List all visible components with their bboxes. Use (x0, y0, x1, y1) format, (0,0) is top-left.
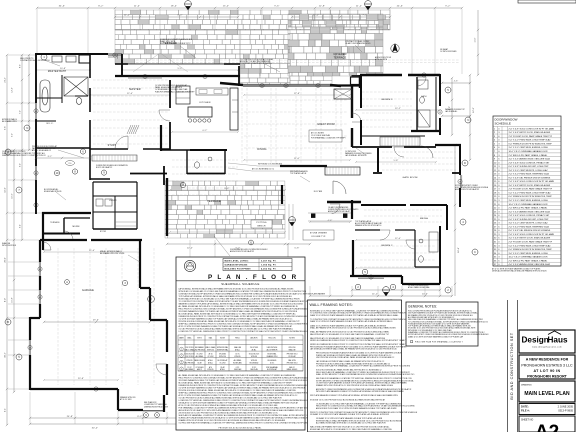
svg-text:FRAMED WITH 2X6 STUDS AT 16: FRAMED WITH 2X6 STUDS AT 16 (355, 224, 381, 227)
svg-text:SHEARWALL SCHEDULE: SHEARWALL SCHEDULE (221, 282, 259, 286)
kitchen (176, 86, 238, 130)
svg-text:12'-0": 12'-0" (395, 238, 401, 240)
entry porch edge lines (289, 204, 293, 240)
svg-text:GARAGE: GARAGE (82, 289, 94, 292)
svg-text:SHTG: SHTG (197, 338, 202, 340)
svg-text:SOLID BLOCKI: SOLID BLOCKI (249, 354, 260, 356)
svg-text:BEDRM 2: BEDRM 2 (381, 245, 393, 247)
svg-text:TERRACE: TERRACE (334, 57, 347, 60)
svg-text:OC FIELD SEE PLAN FOR SHEARWAL: OC FIELD SEE PLAN FOR SHEARWALL LOCATION… (316, 365, 411, 368)
svg-text:FRAMED WITH 2X6 STUDS AT 16 OC: FRAMED WITH 2X6 STUDS AT 16 OC UNO PROVI… (316, 384, 394, 387)
right dimension lines (454, 10, 479, 296)
svg-text:9'0: 9'0 (69, 163, 72, 165)
terrace stone hatch top band (115, 10, 390, 30)
mudroom walls (42, 169, 91, 285)
left grid bubbles (5, 54, 47, 360)
scattered notes (2, 38, 489, 412)
svg-text:1: 1 (181, 349, 182, 351)
svg-text:W.I.C.: W.I.C. (46, 123, 53, 125)
svg-text:GENERAL NOTES:: GENERAL NOTES: (408, 305, 437, 309)
svg-text:12 OC FIELD SEE PLAN: 12 OC FIELD SEE PLAN (311, 134, 331, 137)
svg-text:8'-0" X 6'-8" DBL FRENCH DRS W: 8'-0" X 6'-8" DBL FRENCH DRS W/ SCREENS (509, 177, 551, 179)
svg-text:WITH 8D AT 6 OC EDGES AND: WITH 8D AT 6 OC EDGES AND (258, 163, 283, 166)
svg-text:A2: A2 (535, 422, 559, 432)
svg-text:WITH 2X6 STUDS: WITH 2X6 STUDS (2, 245, 17, 247)
svg-text:15'-0": 15'-0" (223, 6, 230, 8)
svg-text:BENCH: BENCH (257, 225, 265, 227)
svg-text:5'-0": 5'-0" (12, 133, 14, 137)
foyer (280, 166, 361, 204)
svg-text:3: 3 (181, 362, 182, 364)
svg-text:DIMENSIONS IN FIELD PRIOR TO C: DIMENSIONS IN FIELD PRIOR TO CONSTRUCTIO… (2, 155, 46, 157)
svg-text:3'-0" X 6'-8" ENTRY DOOR, STAI: 3'-0" X 6'-8" ENTRY DOOR, STAIN GR ALDER (509, 131, 551, 134)
entry porch columns (308, 213, 352, 221)
svg-text:DIA AT 32 OC WITH 3X3 PLATE WA: DIA AT 32 OC WITH 3X3 PLATE WASHERS DOUB… (310, 314, 398, 317)
top dimension lines (36, 6, 463, 75)
svg-text:KITCHEN: KITCHEN (199, 102, 210, 104)
svg-text:12'-0": 12'-0" (473, 107, 475, 113)
svg-text:WITH 8D: WITH 8D (251, 356, 258, 358)
svg-text:6'-0" X 6'-8" SLIDING DR UNIT,: 6'-0" X 6'-8" SLIDING DR UNIT, LOW-E TMP (509, 219, 549, 221)
svg-text:MDRM: MDRM (72, 226, 79, 228)
svg-text:8'-0" X 6'-8" DBL FRENCH DRS W: 8'-0" X 6'-8" DBL FRENCH DRS W/ SCREENS (509, 230, 551, 232)
svg-text:VERIFY ALL DIMENSIONS IN FIELD: VERIFY ALL DIMENSIONS IN FIELD PRIOR TO … (310, 339, 413, 342)
study area markers (54, 149, 106, 176)
svg-text:12'-8": 12'-8" (319, 6, 326, 8)
svg-text:DRAWING:: DRAWING: (521, 384, 532, 387)
svg-text:6'-4": 6'-4" (5, 408, 7, 412)
svg-text:13'-2": 13'-2" (395, 108, 401, 110)
svg-text:11'-2": 11'-2" (356, 6, 362, 8)
svg-text:WITH 2X6: WITH 2X6 (289, 347, 296, 349)
svg-text:5'-0" X 4'-0" FIXED WDW, LOW-E: 5'-0" X 4'-0" FIXED WDW, LOW-E TEMP GLAZ (509, 244, 552, 247)
designhaus logo box (519, 330, 575, 353)
svg-text:OC EDGES: OC EDGES (196, 367, 204, 369)
svg-text:AT 6 OC EDGES AND 12 OC: AT 6 OC EDGES AND 12 OC (252, 168, 275, 171)
svg-text:AT 16 OC UNO: AT 16 OC UNO (120, 398, 132, 401)
svg-text:LAP 48 MIN ALL EXTERIOR WALLS: LAP 48 MIN ALL EXTERIOR WALLS SHALL BE F… (310, 348, 397, 351)
svg-text:OC WITH 3X3 PLATE: OC WITH 3X3 PLATE (440, 50, 457, 53)
svg-text:WITH 8D: WITH 8D (207, 369, 214, 371)
svg-text:AT ALL PANEL EDGES NAIL: AT ALL PANEL EDGES NAIL (408, 286, 430, 289)
svg-text:WITH 2X6: WITH 2X6 (207, 349, 214, 351)
svg-text:D: D (464, 162, 466, 165)
svg-text:MASTER BATH: MASTER BATH (48, 70, 67, 73)
svg-text:3X3 PLATE WASHERS DOUBLE TOP P: 3X3 PLATE WASHERS DOUBLE TOP PLATES LAP … (310, 394, 398, 397)
bedroom2 (350, 226, 440, 284)
master bedroom (90, 76, 240, 150)
svg-text:STONE VENEER: STONE VENEER (310, 233, 328, 235)
svg-text:UNO PROVIDE: UNO PROVIDE (184, 363, 195, 365)
svg-text:16'-0" X 8'-0" OVERHEAD GARAGE: 16'-0" X 8'-0" OVERHEAD GARAGE DOOR (509, 203, 549, 206)
svg-text:12'-4": 12'-4" (187, 248, 193, 250)
svg-text:4,262 SQ. FT.: 4,262 SQ. FT. (261, 268, 277, 271)
svg-text:GATE ROOM: GATE ROOM (402, 176, 417, 179)
svg-text:FILE #:: FILE #: (521, 409, 530, 413)
right terrace dims (441, 77, 471, 136)
svg-text:0313-P 9905: 0313-P 9905 (558, 409, 573, 413)
svg-text:6'-0" X 6'-8" SLIDING DR UNIT,: 6'-0" X 6'-8" SLIDING DR UNIT, LOW-E TMP (509, 166, 549, 168)
svg-text:11'-6": 11'-6" (294, 158, 300, 160)
svg-text:DOWNS PER SCHEDULE FOUNDATION: DOWNS PER SCHEDULE FOUNDATION (240, 62, 272, 65)
svg-text:9'-2": 9'-2" (445, 6, 450, 8)
svg-text:11'-0": 11'-0" (134, 6, 140, 8)
svg-text:TERRACE: TERRACE (50, 221, 60, 224)
svg-text:OF ANY DISCREPANCIES HOLD: OF ANY DISCREPANCIES HOLD (345, 42, 371, 45)
svg-text:4'-0" X 3'-6" AWNING WDW, OBSC: 4'-0" X 3'-6" AWNING WDW, OBSCURE GLAZ (509, 158, 551, 161)
svg-text:3'-6" X 5'-0" CSMT WDW PR, LOW: 3'-6" X 5'-0" CSMT WDW PR, LOW-E GLAZ (509, 222, 549, 225)
powder leaders (228, 163, 306, 171)
svg-text:2'-6" BIFOLD PR, PAINT GRADE,: 2'-6" BIFOLD PR, PAINT GRADE, 6 PANEL (509, 259, 549, 262)
se markers (355, 269, 396, 296)
svg-text:48 MIN ALL EXTERIOR WALLS SHAL: 48 MIN ALL EXTERIOR WALLS SHALL BE FRAME… (492, 270, 547, 273)
svg-text:FIELD SEE PLAN FOR SHEARWALL L: FIELD SEE PLAN FOR SHEARWALL LOCATIONS T (415, 341, 463, 344)
laundry cluster (93, 182, 137, 229)
top right mini box (518, 0, 576, 3)
svg-text:GARAGE/STORAGE:: GARAGE/STORAGE: (225, 264, 249, 267)
svg-text:OC UNO: OC UNO (197, 354, 204, 356)
svg-text:21'-4": 21'-4" (5, 77, 7, 83)
svg-text:3'-0" X 6'-8" ENTRY DOOR, STAI: 3'-0" X 6'-8" ENTRY DOOR, STAIN GR ALDER (509, 237, 551, 240)
north arrow kite (391, 44, 399, 53)
svg-text:16'-0" X 8'-0" OVERHEAD GARAGE: 16'-0" X 8'-0" OVERHEAD GARAGE DOOR (509, 256, 549, 259)
svg-text:2X6 STUDS: 2X6 STUDS (185, 347, 193, 349)
door/window schedule (492, 116, 561, 273)
master bath fixtures (40, 56, 88, 112)
window markers (28, 53, 462, 391)
svg-text:4'-0" X 3'-6" AWNING WDW, OBSC: 4'-0" X 3'-6" AWNING WDW, OBSCURE GLAZ (509, 263, 551, 266)
svg-text:2'-6" X 6'-8" SOLID CORE DOOR: 2'-6" X 6'-8" SOLID CORE DOOR W/ PT GR J… (509, 180, 555, 183)
svg-text:3'-0" X 5'-0" CSMT WDW, EGRESS: 3'-0" X 5'-0" CSMT WDW, EGRESS, LOW-E (509, 253, 549, 255)
svg-text:2'-0" X 3'-0" FIXED WDW, TEMPE: 2'-0" X 3'-0" FIXED WDW, TEMPERED GLAZ (509, 173, 550, 176)
svg-text:2'-8" X 6'-8" SOLID CORE DR, P: 2'-8" X 6'-8" SOLID CORE DR, PRIVACY SET (509, 214, 551, 217)
svg-text:STOR: STOR (100, 231, 107, 233)
svg-text:10'-6": 10'-6" (12, 193, 14, 198)
svg-text:TERRACE: TERRACE (207, 199, 221, 203)
svg-text:7'-0": 7'-0" (20, 110, 22, 114)
drawing box (519, 381, 575, 402)
svg-text:AT LOT 90 IN: AT LOT 90 IN (533, 369, 560, 373)
svg-text:18'-2": 18'-2" (5, 352, 7, 358)
svg-text:WITH 8D: WITH 8D (234, 356, 241, 358)
interior dim strings (35, 69, 441, 381)
svg-text:SCHEDULE: SCHEDULE (495, 122, 511, 126)
svg-text:6'-0" FRENCH DOOR PR W/ SIDELI: 6'-0" FRENCH DOOR PR W/ SIDELITES, TEMP (509, 196, 553, 198)
svg-text:BEDRM 3: BEDRM 3 (381, 99, 393, 101)
svg-text:PRONGHORN RESORT: PRONGHORN RESORT (527, 375, 568, 379)
svg-text:SOLID BLOCKI: SOLID BLOCKI (184, 354, 195, 356)
svg-text:AT 6 OC EDGES AND 12: AT 6 OC EDGES AND 12 (32, 149, 51, 152)
svg-text:6'-0" FRENCH DOOR PR W/ SIDELI: 6'-0" FRENCH DOOR PR W/ SIDELITES, TEMP (509, 249, 553, 251)
svg-text:9'-6": 9'-6" (274, 6, 279, 8)
svg-text:34'-6": 34'-6" (59, 6, 66, 8)
svg-text:BID AND CONSTRUCTION SET: BID AND CONSTRUCTION SET (510, 332, 514, 399)
svg-text:2X6 STUDS: 2X6 STUDS (185, 356, 193, 358)
svg-text:UNO PROVIDE: UNO PROVIDE (267, 347, 278, 349)
svg-text:2'-8" POCKET DOOR, PAINT GRADE: 2'-8" POCKET DOOR, PAINT GRADE TRIM TYP (509, 240, 553, 243)
gate room (352, 75, 462, 219)
svg-text:11'-0": 11'-0" (475, 37, 477, 42)
svg-text:ANCHOR BOLTS 5/8 DIA AT 32: ANCHOR BOLTS 5/8 DIA AT 32 (455, 188, 479, 191)
study area notes (32, 145, 84, 200)
terrace stone hatch middle (240, 30, 290, 84)
svg-text:BOLTS 5/8 DIA AT 32: BOLTS 5/8 DIA AT 32 (96, 166, 112, 169)
svg-text:POTTING: POTTING (256, 222, 267, 224)
svg-text:2'-8" POCKET DOOR, PAINT GRADE: 2'-8" POCKET DOOR, PAINT GRADE TRIM TYP (509, 135, 553, 138)
svg-text:2'-8" X 6'-8" SOLID CORE DR, P: 2'-8" X 6'-8" SOLID CORE DR, PRIVACY SET (509, 161, 551, 164)
svg-text:1,005 SQ. FT.: 1,005 SQ. FT. (261, 265, 277, 267)
svg-text:AT 32 OC WITH: AT 32 OC WITH (375, 58, 388, 61)
svg-text:DINING: DINING (257, 149, 266, 151)
svg-text:ANCHOR BOLTS 5/8 DIA AT 32 OC: ANCHOR BOLTS 5/8 DIA AT 32 OC WITH 3X3 P… (316, 407, 397, 410)
svg-text:A NEW RESIDENCE FOR: A NEW RESIDENCE FOR (526, 358, 569, 362)
svg-text:14'-6": 14'-6" (5, 187, 7, 193)
svg-text:3'-0" X 6'-8" ENTRY DOOR, STAI: 3'-0" X 6'-8" ENTRY DOOR, STAIN GR ALDER (509, 184, 551, 187)
potting note box (251, 220, 272, 228)
svg-text:LNDRY: LNDRY (109, 200, 117, 202)
svg-text:FOYER: FOYER (314, 191, 323, 193)
svg-text:Design: Design (522, 336, 549, 345)
svg-text:OC UNO: OC UNO (220, 363, 227, 365)
svg-text:AT 6 OC EDGES: AT 6 OC EDGES (311, 131, 325, 134)
svg-text:24'-6": 24'-6" (397, 6, 404, 8)
svg-text:10'-8": 10'-8" (60, 68, 66, 70)
svg-text:16'-0" X 8'-0" OVERHEAD GARAGE: 16'-0" X 8'-0" OVERHEAD GARAGE DOOR (509, 150, 549, 153)
svg-text:SHALL NOTIFY ARCHITECT OF ANY: SHALL NOTIFY ARCHITECT OF ANY DISCREPANC… (316, 373, 414, 376)
bedroom3 wing walls (352, 74, 440, 157)
svg-text:EDGE: EDGE (220, 338, 225, 340)
svg-text:2'-6" X 6'-8" SOLID CORE DOOR: 2'-6" X 6'-8" SOLID CORE DOOR W/ PT GR J… (509, 233, 555, 236)
svg-text:2X6 STUDS: 2X6 STUDS (250, 347, 258, 349)
svg-text:3'-0" X 5'-0" CSMT WDW, EGRESS: 3'-0" X 5'-0" CSMT WDW, EGRESS, LOW-E (509, 147, 549, 149)
svg-text:COLUMN TYP.: COLUMN TYP. (311, 236, 326, 238)
bedroom3 closet (380, 137, 420, 146)
svg-text:2 JUNE 2005: 2 JUNE 2005 (558, 405, 574, 409)
svg-text:MASTER: MASTER (129, 88, 141, 91)
svg-text:WITH 8D: WITH 8D (251, 360, 258, 362)
master bath partitions (36, 54, 90, 150)
svg-text:5'-0" X 4'-0" FIXED WDW, LOW-E: 5'-0" X 4'-0" FIXED WDW, LOW-E TEMP GLAZ (509, 139, 552, 142)
bath2 fixtures (419, 232, 438, 262)
svg-text:DIMENSIONS IN FIELD PRIOR: DIMENSIONS IN FIELD PRIOR (144, 406, 169, 408)
svg-text:BE FRAMED WITH 2X6 STUDS: BE FRAMED WITH 2X6 STUDS (100, 252, 125, 255)
svg-text:STUDS AT 16 OC UNO PROVIDE SOL: STUDS AT 16 OC UNO PROVIDE SOLID BLOCKIN… (310, 398, 386, 401)
svg-text:ANCHOR BOLTS 5/8 DIA AT 32: ANCHOR BOLTS 5/8 DIA AT 32 (230, 250, 254, 253)
svg-text:2'-8" POCKET DOOR, PAINT GRADE: 2'-8" POCKET DOOR, PAINT GRADE TRIM TYP (509, 188, 553, 191)
svg-text:MAIN LEVEL LIVING:: MAIN LEVEL LIVING: (225, 260, 249, 263)
svg-text:8'-6": 8'-6" (20, 64, 22, 68)
top section markers (185, 1, 372, 10)
svg-text:C: C (474, 251, 476, 254)
media room (355, 205, 447, 230)
svg-text:2'-6" BIFOLD PR, PAINT GRADE,: 2'-6" BIFOLD PR, PAINT GRADE, 6 PANEL (509, 154, 549, 157)
general notes (406, 302, 489, 346)
svg-text:3X3 PLATE WASHERS DOUBLE TOP P: 3X3 PLATE WASHERS DOUBLE TOP P (160, 42, 191, 45)
plan-floor title block (176, 257, 328, 430)
svg-text:PROVIDE SOLI: PROVIDE SOLI (287, 354, 298, 356)
svg-text:www.designhausone.com: www.designhausone.com (532, 347, 562, 349)
svg-text:5'-0" X 4'-0" FIXED WDW, LOW-E: 5'-0" X 4'-0" FIXED WDW, LOW-E TEMP GLAZ (509, 191, 552, 194)
svg-text:PROVIDE SOLID BLOCKING AT ALL: PROVIDE SOLID BLOCKING AT ALL PANEL (218, 427, 261, 430)
svg-text:OC FIELD SEE PLAN FOR SHEARWAL: OC FIELD SEE PLAN FOR SHEARWALL LOCATION… (179, 422, 324, 425)
bottom terrace stone hatch (165, 181, 285, 238)
svg-text:LAP 48 MIN ALL EXTERIOR: LAP 48 MIN ALL EXTERIOR (345, 154, 367, 157)
svg-text:6'-4": 6'-4" (20, 224, 22, 228)
svg-text:SHEET NO: SHEET NO (521, 419, 533, 422)
svg-text:20'-0": 20'-0" (5, 257, 7, 263)
svg-text:4'-6": 4'-6" (454, 81, 459, 83)
hall and powder room (130, 125, 227, 185)
svg-text:3'-0" X 5'-0" CSMT WDW, EGRESS: 3'-0" X 5'-0" CSMT WDW, EGRESS, LOW-E (509, 200, 549, 202)
svg-text:HOLD DN: HOLD DN (268, 338, 276, 340)
svg-text:ALL PANEL EDGES NAIL WITH 8D A: ALL PANEL EDGES NAIL WITH 8D AT 6 OC EDG… (316, 422, 386, 425)
svg-text:WALL FRAMING NOTES:: WALL FRAMING NOTES: (310, 303, 353, 307)
svg-text:2'-6" X 6'-8" SOLID CORE DOOR: 2'-6" X 6'-8" SOLID CORE DOOR W/ PT GR J… (509, 127, 555, 130)
svg-text:BE FRAMED WITH: BE FRAMED WITH (2, 120, 17, 123)
svg-text:PRONGHORN ESTATES 3 LLC: PRONGHORN ESTATES 3 LLC (521, 363, 573, 367)
svg-text:6'-2": 6'-2" (203, 130, 208, 132)
svg-text:23'-8": 23'-8" (78, 378, 84, 380)
svg-text:8'-0": 8'-0" (5, 298, 7, 302)
svg-text:14'-2": 14'-2" (372, 294, 378, 296)
terrace labels (163, 41, 347, 203)
master suite walls (35, 53, 122, 214)
svg-text:WITH 3X3 PLATE WASHERS DOUBLE: WITH 3X3 PLATE WASHERS DOUBLE TOP PLATES… (316, 390, 404, 393)
svg-text:3,257 SQ. FT.: 3,257 SQ. FT. (261, 261, 277, 263)
left dimension lines (5, 54, 43, 426)
svg-text:15'-4": 15'-4" (89, 250, 95, 252)
svg-text:9'-0": 9'-0" (178, 68, 183, 70)
date box (519, 404, 575, 415)
project box (519, 355, 575, 379)
svg-text:EDGES NAIL WITH 8D: EDGES NAIL WITH 8D (44, 190, 62, 193)
svg-text:30'-0": 30'-0" (92, 428, 99, 430)
svg-text:MEDIA: MEDIA (420, 217, 428, 220)
svg-text:DIA AT 32 OC WITH 3X3 PLATE WA: DIA AT 32 OC WITH 3X3 PLATE WASHERS DOUB… (408, 335, 464, 338)
right grid bubbles (445, 87, 478, 293)
svg-text:LOCATIONS TYP VERIFY ALL DIMEN: LOCATIONS TYP VERIFY ALL DIMENSIONS IN F… (179, 330, 326, 333)
stone veneer column note (303, 230, 334, 240)
svg-text:NOTES: NOTES (289, 338, 295, 340)
svg-text:4'-0" X 3'-6" AWNING WDW, OBSC: 4'-0" X 3'-6" AWNING WDW, OBSCURE GLAZ (509, 210, 551, 213)
svg-text:FOR SHEARWALL LOCATIONS TYP VE: FOR SHEARWALL LOCATIONS TYP VERIFY (311, 137, 347, 140)
wall hatch corner (127, 125, 139, 134)
svg-text:MAIN LEVEL PLAN: MAIN LEVEL PLAN (524, 391, 570, 397)
svg-text:BUILDING FOOTPRINT:: BUILDING FOOTPRINT: (225, 269, 252, 271)
svg-text:UNO PROVIDE: UNO PROVIDE (194, 349, 205, 351)
svg-text:29'-6": 29'-6" (93, 320, 99, 322)
svg-text:17'-8": 17'-8" (294, 93, 300, 95)
wall framing notes (308, 300, 419, 432)
garage markers (122, 280, 159, 417)
svg-text:3'-6" X 5'-0" CSMT WDW PR, LOW: 3'-6" X 5'-0" CSMT WDW PR, LOW-E GLAZ (509, 169, 549, 172)
svg-text:GREAT ROOM: GREAT ROOM (317, 123, 334, 126)
svg-text:OC UNO: OC UNO (208, 356, 215, 358)
svg-text:2: 2 (181, 355, 182, 357)
svg-text:18'-4": 18'-4" (171, 6, 178, 8)
bath3 fixtures (418, 80, 430, 127)
section diamond bottom center (289, 217, 296, 226)
svg-text:9'-2": 9'-2" (20, 163, 22, 167)
svg-text:15'-8": 15'-8" (12, 297, 14, 302)
svg-text:16'-4": 16'-4" (458, 247, 460, 253)
dining nook (220, 83, 341, 87)
svg-text:WITH 2X6: WITH 2X6 (219, 356, 226, 358)
terrace roof valley lines (133, 32, 188, 72)
svg-text:WITH 8D: WITH 8D (186, 360, 193, 362)
svg-text:12'-4": 12'-4" (127, 93, 133, 95)
terrace stone hatch left (115, 30, 240, 64)
svg-text:TOP PLATES LAP 48: TOP PLATES LAP 48 (290, 172, 306, 175)
svg-text:Haus: Haus (548, 336, 568, 345)
svg-text:8'-6": 8'-6" (225, 188, 230, 190)
svg-text:PROVIDE SOLI: PROVIDE SOLI (287, 363, 298, 365)
svg-text:ANCHOR BOLTS 5/8 DIA AT: ANCHOR BOLTS 5/8 DIA AT (328, 210, 350, 213)
svg-text:6'-0" FRENCH DOOR PR W/ SIDELI: 6'-0" FRENCH DOOR PR W/ SIDELITES, TEMP (509, 143, 553, 145)
great room (330, 48, 361, 147)
sheet number box (519, 416, 575, 432)
svg-text:8'-2": 8'-2" (137, 416, 142, 418)
svg-text:12'-2": 12'-2" (12, 87, 14, 92)
svg-text:8'-2": 8'-2" (48, 156, 53, 158)
svg-text:4: 4 (181, 368, 182, 370)
svg-text:LAP 48 MIN ALL: LAP 48 MIN ALL (445, 110, 458, 113)
study (90, 150, 137, 180)
svg-text:2'-0" X 3'-0" FIXED WDW, TEMPE: 2'-0" X 3'-0" FIXED WDW, TEMPERED GLAZ (509, 225, 550, 228)
svg-text:SHALL BE FRAMED WITH 2X6 STUDS: SHALL BE FRAMED WITH 2X6 STUDS AT 16 OC … (310, 327, 397, 330)
svg-text:EDGES NAIL WITH 8D AT 6 OC EDG: EDGES NAIL WITH 8D AT 6 OC EDGES AND 12 … (310, 428, 392, 431)
bottom dimension lines (29, 240, 453, 430)
svg-text:5/8 DIA AT 32 OC WITH 3X3 PLAT: 5/8 DIA AT 32 OC WITH 3X3 PLATE WASHERS … (310, 413, 390, 416)
svg-text:P L A N . F L O O R: P L A N . F L O O R (208, 274, 298, 281)
svg-text:DATE:: DATE: (521, 405, 529, 409)
svg-text:24'-8": 24'-8" (67, 416, 74, 418)
svg-text:9'-6": 9'-6" (5, 126, 7, 130)
svg-text:DIA AT 32 OC WITH 3X3 PLATE WA: DIA AT 32 OC WITH 3X3 PLATE WASHERS DOUB… (310, 320, 393, 323)
svg-text:8'-2": 8'-2" (98, 6, 103, 8)
garage walls (29, 178, 167, 412)
bid and construction set strip (508, 300, 518, 432)
svg-text:NAIL WITH 8D AT 6 OC EDGES AND: NAIL WITH 8D AT 6 OC EDGES AND 12 OC FIE… (310, 333, 390, 336)
terrace step edge (115, 63, 240, 65)
svg-text:STUDY: STUDY (108, 145, 117, 147)
svg-text:5'-8": 5'-8" (394, 160, 399, 162)
covered terrace stone hatch dark ashlar (288, 14, 383, 76)
dashed ceiling lines (58, 60, 460, 385)
svg-text:2'-6" BIFOLD PR, PAINT GRADE,: 2'-6" BIFOLD PR, PAINT GRADE, 6 PANEL (509, 207, 549, 210)
svg-text:UNO PROVIDE SOLID BLOCKING AT: UNO PROVIDE SOLID BLOCKING AT ALL PANEL … (316, 356, 394, 359)
svg-text:BATH: BATH (421, 95, 427, 98)
svg-text:6'-8": 6'-8" (295, 248, 300, 250)
